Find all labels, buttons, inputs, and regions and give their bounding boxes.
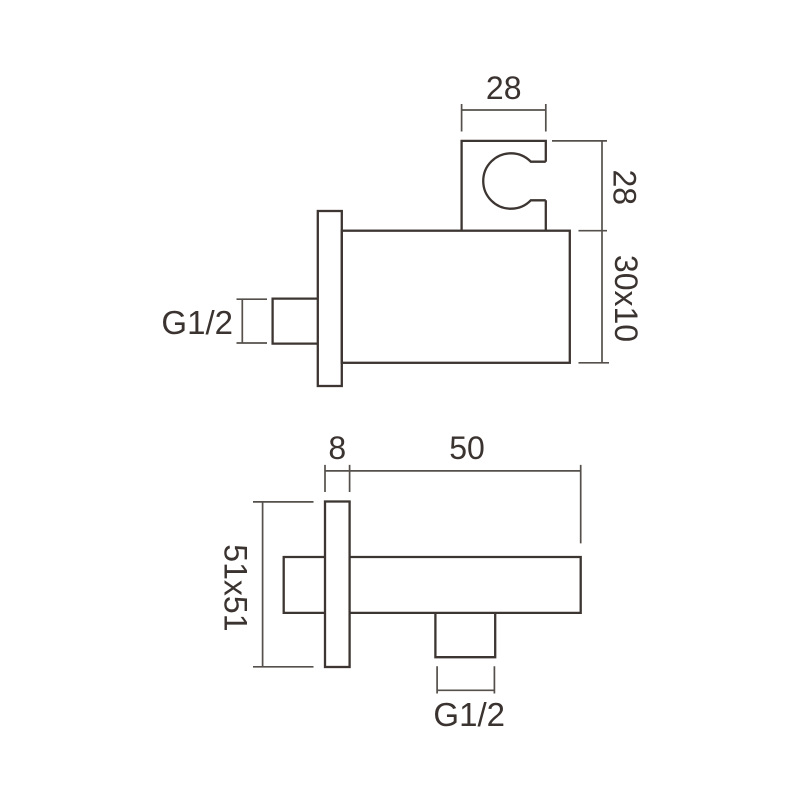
svg-text:30x10: 30x10 (608, 255, 644, 342)
dimension 8 / 50: extension lines (325, 465, 581, 544)
dimension 8 / 50: dimension line (325, 470, 581, 472)
right dimension ticks (552, 141, 609, 363)
dimension 28 top: dimension line (462, 109, 546, 111)
dimension G1/2 bottom bracket (437, 666, 494, 693)
dimension 51x51: extension ticks (253, 502, 314, 667)
G1/2 inlet stub (front view) (273, 299, 318, 344)
dimension 28 top: extension lines (462, 104, 546, 132)
dimension right vertical line (28 / 30x10) (601, 141, 603, 363)
wall flange plate (side view) (325, 502, 350, 668)
inlet stub (side view, left) (284, 557, 325, 613)
svg-text:G1/2: G1/2 (433, 696, 505, 733)
outlet stub (side view, bottom) (435, 613, 495, 657)
valve body (front view) (342, 231, 570, 363)
C-shaped handset clip (483, 153, 546, 208)
svg-text:50: 50 (449, 430, 485, 466)
svg-text:G1/2: G1/2 (161, 304, 233, 341)
holder square bracket (462, 141, 546, 231)
valve body (side view) (350, 557, 581, 613)
svg-text:28: 28 (607, 170, 643, 206)
wall flange plate (front view) (318, 211, 342, 386)
G1/2 inlet bracket (237, 299, 268, 344)
svg-text:51x51: 51x51 (218, 544, 254, 631)
svg-text:28: 28 (486, 70, 522, 106)
dimension 51x51: dimension line (262, 502, 264, 667)
svg-text:8: 8 (328, 430, 346, 466)
